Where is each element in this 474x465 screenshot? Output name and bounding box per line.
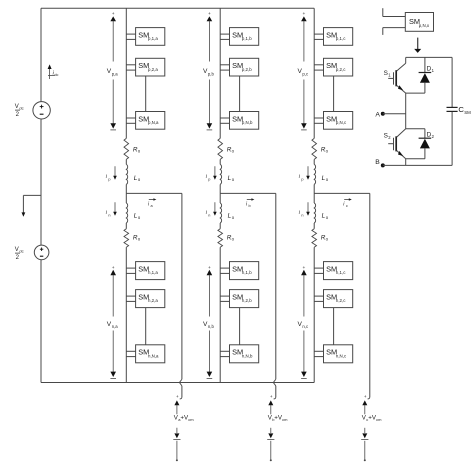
inductor L_o (phase b upper arm) (220, 164, 221, 184)
label V_n,c (298, 321, 309, 329)
wire: detail SM terminal A stub (383, 8, 406, 16)
wire: phase c upper R to L (313, 159, 315, 164)
svg-text:b: b (249, 204, 251, 208)
label L_o (phase a upper arm) (134, 175, 141, 182)
wire: phase c lower arm bus (313, 247, 315, 382)
wire: terminal stubs of SM_p,2,b (220, 65, 229, 70)
wire: terminal stubs of SM_p,N,b (220, 118, 229, 123)
submodule SM_p,N,a (136, 112, 165, 130)
zoom arrow from SM box to detail circuit (414, 38, 421, 53)
current arrow i_n,a (106, 202, 117, 217)
svg-text:p,N,b: p,N,b (242, 120, 253, 125)
label R_o (phase a upper arm) (133, 146, 141, 153)
svg-text:p,1,b: p,1,b (242, 36, 252, 41)
wire: phase b upper arm bus (219, 8, 221, 138)
svg-text:n,2,b: n,2,b (242, 298, 252, 303)
inductor L_o (phase a upper arm) (126, 164, 127, 184)
current arrow i_p,b (206, 166, 217, 181)
wire: phase a lower arm bus (125, 247, 127, 382)
wire: detail right rail upper (451, 57, 453, 107)
submodule SM_n,1,a (136, 262, 165, 280)
svg-text:n,2,c: n,2,c (336, 298, 346, 303)
wire: phase b lower arm bus (219, 247, 221, 382)
wire: DC link left, between sources (40, 119, 42, 245)
wire: S2 emitter / D2 anode junction (406, 158, 425, 160)
submodule SM_n,N,b (230, 345, 259, 363)
source V_dc/2 (lower) (34, 245, 49, 260)
submodule SM_n,2,c (324, 290, 353, 308)
label V_p,c (298, 68, 309, 76)
svg-text:n,N,c: n,N,c (336, 353, 347, 358)
wire: phase a upper R to L (125, 159, 127, 164)
wire: series link SM_p,2,a to SM_p,N,a (145, 76, 147, 112)
svg-text:B: B (375, 159, 380, 166)
current arrow i_n,c (299, 202, 310, 217)
label R_o (phase c lower arm) (321, 235, 329, 242)
wire: detail top rail (406, 56, 452, 58)
inductor L_o (phase a lower arm) (126, 203, 127, 223)
svg-text:+: + (112, 12, 115, 17)
source V_dc/2 (upper) (33, 102, 50, 119)
submodule SM_p,2,b (230, 58, 259, 76)
submodule SM_n,N,a (136, 345, 165, 363)
submodule SM_p,N,b (230, 112, 259, 130)
submodule SM_p,2,c (324, 58, 353, 76)
svg-text:cm: cm (188, 417, 194, 422)
wire: S1 emitter / D1 anode junction (406, 92, 425, 94)
wire: positive DC bus (top rail) (41, 7, 314, 9)
wire: terminal stubs of SM_n,N,b (220, 351, 229, 356)
svg-text:p,N,c: p,N,c (336, 120, 347, 125)
submodule SM_p,1,b (230, 28, 259, 46)
voltage arrow V_p,c (301, 12, 307, 130)
svg-text:+: + (208, 12, 211, 17)
wire: phase b lower L to R (219, 223, 221, 229)
svg-text:p: p (108, 177, 110, 181)
resistor R_o (phase a upper arm) (124, 138, 129, 159)
wire: phase c lower L to R (313, 223, 315, 229)
svg-text:dc: dc (19, 106, 23, 111)
phase c terminal voltage V_c+V_cm (361, 394, 382, 461)
submodule SM_n,2,b (230, 290, 259, 308)
wire: detail mid vertical (405, 93, 407, 129)
wire: phase a upper arm to node (125, 184, 127, 193)
wire: detail right rail lower (451, 112, 453, 165)
submodule SM_n,1,c (324, 262, 353, 280)
wire: terminal stubs of SM_p,1,a (126, 34, 135, 39)
label L_o (phase b upper arm) (228, 175, 235, 182)
wire: terminal stubs of SM_p,N,a (126, 118, 135, 123)
submodule SM_p,1,a (136, 28, 165, 46)
svg-text:n,b: n,b (208, 324, 215, 329)
label V_p,a (107, 68, 118, 76)
current arrow i_n,b (206, 202, 217, 217)
submodule SM_p,N,x (detail reference) (405, 13, 433, 32)
wire: S2 emitter to bottom rail (405, 159, 407, 166)
transistor S2 (IGBT) (388, 129, 406, 159)
phase b terminal voltage V_b+V_cm (267, 394, 288, 461)
svg-text:n,1,c: n,1,c (336, 270, 346, 275)
node B (375, 159, 385, 167)
wire: phase b node to lower inductor (219, 193, 221, 203)
node A (375, 111, 405, 118)
current arrow i_p,c (299, 166, 310, 181)
svg-text:p,1,a: p,1,a (148, 36, 158, 41)
current label i_a (148, 198, 157, 208)
resistor R_o (phase c lower arm) (312, 229, 317, 247)
svg-text:dc: dc (54, 73, 58, 77)
diode D2 (406, 129, 432, 159)
wire: terminal stubs of SM_n,2,a (126, 296, 135, 301)
resistor R_o (phase b lower arm) (218, 229, 223, 247)
resistor R_o (phase c upper arm) (312, 138, 317, 159)
svg-text:n,2,a: n,2,a (148, 298, 158, 303)
svg-text:n,N,a: n,N,a (148, 353, 159, 358)
svg-text:p,2,b: p,2,b (242, 67, 252, 72)
label V_n,b (203, 321, 214, 329)
diode D1 (419, 57, 432, 93)
svg-text:p,b: p,b (208, 71, 215, 76)
svg-text:p,1,c: p,1,c (336, 36, 346, 41)
current arrow i_p,a (106, 166, 117, 181)
svg-text:cm: cm (282, 417, 288, 422)
wire: detail SM terminal B stub (383, 28, 406, 35)
wire: phase b upper arm to node (219, 184, 221, 193)
label L_o (phase c upper arm) (322, 175, 329, 182)
svg-text:V: V (15, 104, 19, 110)
svg-text:dc: dc (19, 249, 23, 254)
resistor R_o (phase b upper arm) (218, 138, 223, 159)
label S2 (384, 132, 392, 140)
wire: terminal stubs of SM_n,2,b (220, 296, 229, 301)
wire: series link SM_n,2,b to SM_n,N,b (239, 308, 241, 345)
wire: series link SM_n,2,c to SM_n,N,c (333, 308, 335, 345)
wire: terminal stubs of SM_p,1,b (220, 34, 229, 39)
wire: series link SM_p,2,b to SM_p,N,b (239, 76, 241, 112)
wire: terminal stubs of SM_p,2,a (126, 65, 135, 70)
transistor S1 (IGBT) (388, 57, 406, 93)
label V_dc/2 (upper) (15, 104, 24, 118)
submodule SM_p,1,c (324, 28, 353, 46)
label R_o (phase c upper arm) (321, 146, 329, 153)
wire: terminal stubs of SM_n,1,a (126, 268, 135, 273)
wire: phase b output node to terminal (220, 193, 276, 399)
wire: phase b upper R to L (219, 159, 221, 164)
wire: terminal stubs of SM_n,1,b (220, 268, 229, 273)
wire: terminal stubs of SM_n,N,a (126, 351, 135, 356)
svg-text:n,a: n,a (112, 324, 119, 329)
svg-text:p: p (208, 177, 210, 181)
label V_n,a (107, 321, 118, 329)
svg-text:+: + (302, 12, 305, 17)
wire: series link SM_n,2,a to SM_n,N,a (145, 308, 147, 345)
submodule SM_n,1,b (230, 262, 259, 280)
resistor R_o (phase a lower arm) (124, 229, 129, 247)
svg-text:n: n (108, 213, 110, 217)
wire: terminal stubs of SM_n,1,c (314, 268, 323, 273)
wire: phase c upper arm to node (313, 184, 315, 193)
wire: negative DC return bus (bottom rail) (41, 382, 314, 384)
inductor L_o (phase b lower arm) (220, 203, 221, 223)
current label i_c (343, 198, 352, 208)
label L_o (phase c lower arm) (322, 213, 329, 220)
label R_o (phase a lower arm) (133, 235, 141, 242)
svg-text:p: p (301, 177, 303, 181)
label S1 (384, 70, 392, 78)
wire: terminal stubs of SM_n,2,c (314, 296, 323, 301)
svg-text:n,c: n,c (302, 324, 309, 329)
wire: phase a lower L to R (125, 223, 127, 229)
wire: phase c upper arm bus (313, 8, 315, 138)
svg-text:n,1,b: n,1,b (242, 270, 252, 275)
label R_o (phase b upper arm) (227, 146, 235, 153)
wire: DC link left, lower source to bottom bus (40, 260, 42, 383)
wire: detail bottom rail (383, 164, 452, 166)
label R_o (phase b lower arm) (227, 235, 235, 242)
svg-text:n,1,a: n,1,a (148, 270, 158, 275)
current label i_b (246, 198, 255, 208)
voltage arrow V_n,b (207, 266, 213, 379)
svg-text:cm: cm (376, 417, 382, 422)
capacitor C_SM (447, 107, 458, 111)
wire: phase c node to lower inductor (313, 193, 315, 203)
ground reference arrow at DC midpoint (22, 195, 42, 216)
voltage arrow V_n,a (110, 266, 116, 379)
wire: series link SM_p,2,c to SM_p,N,c (333, 76, 335, 112)
label C_SM (458, 105, 471, 115)
wire: terminal stubs of SM_p,N,c (314, 118, 323, 123)
wire: phase a output node to terminal (126, 193, 182, 399)
wire: terminal stubs of SM_p,2,c (314, 65, 323, 70)
phase a terminal voltage V_a+V_cm (173, 394, 194, 461)
voltage arrow V_n,c (301, 266, 307, 379)
label V_p,b (203, 68, 214, 76)
svg-text:p,2,c: p,2,c (336, 67, 346, 72)
submodule SM_n,2,a (136, 290, 165, 308)
label L_o (phase a lower arm) (134, 213, 141, 220)
svg-text:p,a: p,a (112, 71, 119, 76)
svg-text:n: n (208, 213, 210, 217)
svg-text:n: n (301, 213, 303, 217)
wire: terminal stubs of SM_p,1,c (314, 34, 323, 39)
voltage arrow V_p,a (110, 12, 116, 130)
svg-text:p,2,a: p,2,a (148, 67, 158, 72)
svg-text:+: + (176, 394, 179, 399)
inductor L_o (phase c upper arm) (314, 164, 315, 184)
svg-text:+: + (270, 394, 273, 399)
wire: phase a upper arm bus (125, 8, 127, 138)
svg-text:c: c (346, 204, 348, 208)
inductor L_o (phase c lower arm) (314, 203, 315, 223)
svg-text:A: A (375, 111, 380, 118)
submodule SM_n,N,c (324, 345, 353, 363)
current arrow i_dc (48, 64, 59, 79)
label L_o (phase b lower arm) (228, 213, 235, 220)
label V_dc/2 (lower) (15, 247, 24, 261)
submodule SM_p,N,c (324, 112, 353, 130)
label D2 (427, 132, 435, 139)
voltage arrow V_p,b (207, 12, 213, 130)
svg-text:p,N,a: p,N,a (148, 120, 159, 125)
svg-text:+: + (364, 394, 367, 399)
svg-text:n,N,b: n,N,b (242, 353, 253, 358)
wire: phase a node to lower inductor (125, 193, 127, 203)
svg-text:p,N,x: p,N,x (419, 23, 430, 28)
svg-text:V: V (15, 247, 19, 253)
wire: phase c output node to terminal (314, 193, 370, 399)
wire: DC link left, top source to bus (40, 8, 42, 101)
svg-text:p,c: p,c (302, 71, 309, 76)
wire: terminal stubs of SM_n,N,c (314, 351, 323, 356)
label D1 (427, 66, 435, 73)
svg-text:SM: SM (464, 110, 471, 115)
submodule SM_p,2,a (136, 58, 165, 76)
